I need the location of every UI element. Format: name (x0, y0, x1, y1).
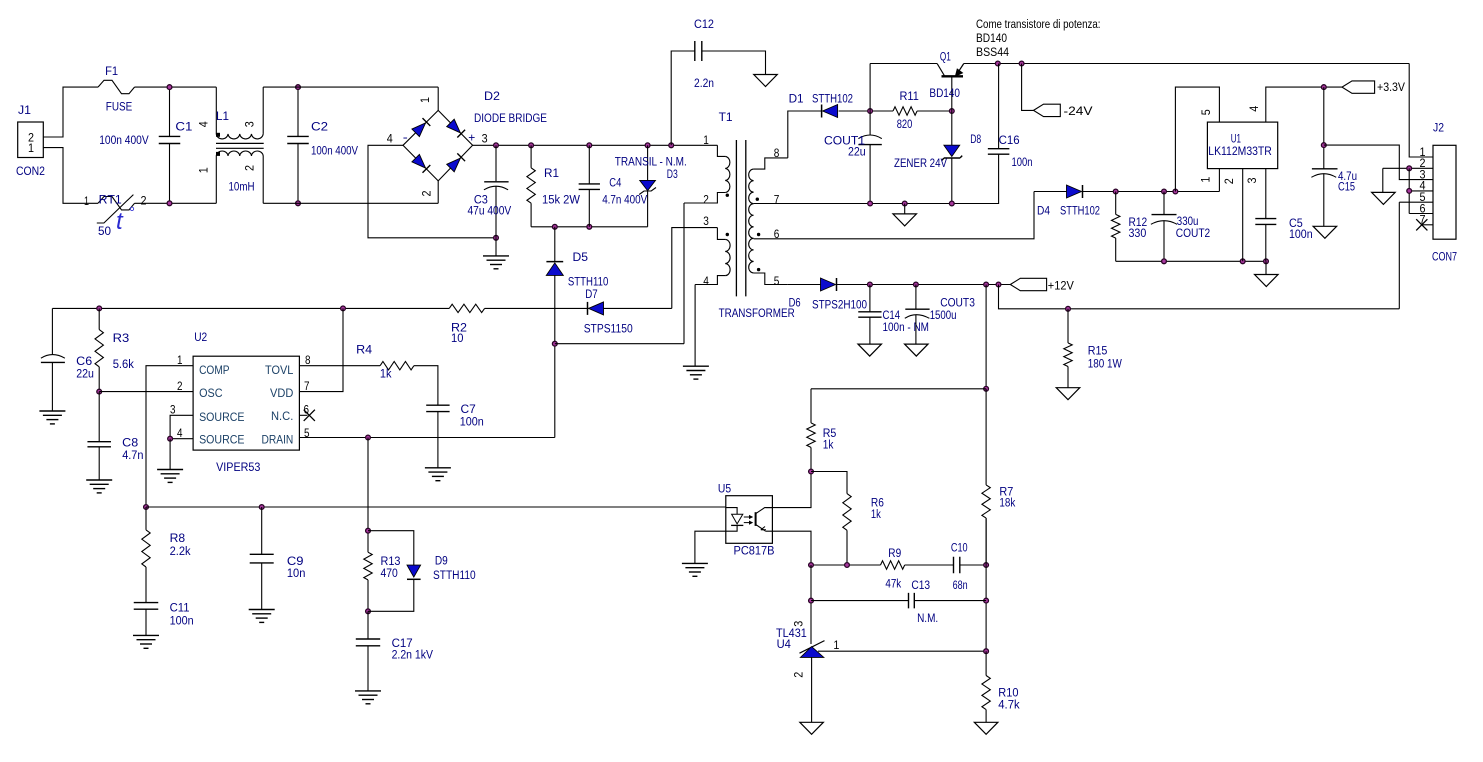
svg-text:PC817B: PC817B (734, 544, 775, 558)
svg-text:VIPER53: VIPER53 (216, 460, 260, 474)
svg-text:470: 470 (381, 566, 398, 580)
svg-text:R4: R4 (356, 343, 372, 357)
svg-text:3: 3 (242, 121, 256, 127)
svg-text:C15: C15 (1338, 179, 1355, 193)
svg-text:D5: D5 (573, 250, 589, 264)
svg-text:VDD: VDD (270, 386, 293, 400)
svg-text:3: 3 (482, 132, 488, 146)
svg-text:100n - NM: 100n - NM (883, 320, 929, 334)
svg-text:7: 7 (304, 379, 310, 393)
svg-text:F1: F1 (105, 64, 118, 78)
svg-text:R9: R9 (888, 546, 901, 560)
svg-text:°: ° (129, 204, 135, 221)
svg-text:2: 2 (792, 672, 806, 678)
svg-text:10mH: 10mH (229, 179, 255, 193)
svg-text:22u: 22u (848, 144, 866, 158)
svg-text:COUT2: COUT2 (1176, 226, 1211, 240)
svg-text:TRANSFORMER: TRANSFORMER (719, 306, 795, 320)
svg-text:68n: 68n (953, 578, 968, 592)
svg-text:C2: C2 (311, 120, 328, 134)
svg-text:FUSE: FUSE (106, 100, 133, 114)
svg-text:1: 1 (418, 97, 432, 103)
svg-text:BD140: BD140 (976, 31, 1007, 45)
svg-text:C13: C13 (911, 578, 930, 592)
svg-text:2.2n: 2.2n (694, 76, 714, 90)
svg-text:5.6k: 5.6k (113, 357, 135, 371)
svg-text:1: 1 (833, 638, 839, 652)
svg-text:STTH102: STTH102 (1060, 204, 1100, 218)
svg-text:5: 5 (774, 274, 780, 288)
svg-text:+3.3V: +3.3V (1377, 80, 1406, 94)
svg-text:100n 400V: 100n 400V (99, 133, 149, 147)
svg-text:22u: 22u (76, 366, 94, 380)
svg-text:D6: D6 (789, 296, 801, 310)
svg-text:SOURCE: SOURCE (199, 410, 244, 424)
svg-text:2.2n 1kV: 2.2n 1kV (392, 647, 434, 661)
svg-text:D1: D1 (789, 91, 804, 105)
svg-text:BSS44: BSS44 (976, 45, 1009, 59)
svg-text:1: 1 (1198, 176, 1212, 182)
svg-text:BD140: BD140 (929, 86, 960, 100)
svg-text:1k: 1k (380, 366, 392, 380)
svg-text:STTH110: STTH110 (433, 568, 476, 582)
svg-text:2: 2 (703, 193, 709, 207)
svg-text:47k: 47k (885, 576, 902, 590)
svg-text:2: 2 (141, 194, 147, 208)
svg-text:J2: J2 (1433, 120, 1444, 134)
svg-text:50: 50 (98, 224, 111, 238)
svg-text:CON7: CON7 (1432, 249, 1457, 263)
svg-text:820: 820 (897, 117, 913, 131)
svg-text:2.2k: 2.2k (170, 544, 192, 558)
svg-text:Come transistore di potenza:: Come transistore di potenza: (976, 17, 1101, 31)
svg-text:100n: 100n (1012, 155, 1033, 169)
svg-text:DRAIN: DRAIN (262, 433, 294, 447)
svg-text:2: 2 (419, 190, 433, 196)
svg-text:U5: U5 (718, 481, 731, 495)
svg-text:C11: C11 (170, 600, 190, 614)
svg-text:L1: L1 (216, 109, 229, 123)
svg-text:D2: D2 (484, 89, 500, 103)
svg-text:4: 4 (703, 274, 709, 288)
svg-text:8: 8 (774, 146, 780, 160)
svg-text:R1: R1 (544, 166, 559, 180)
svg-text:18k: 18k (999, 496, 1016, 510)
svg-text:330: 330 (1129, 226, 1147, 240)
svg-text:T1: T1 (719, 110, 733, 124)
svg-text:D3: D3 (667, 167, 678, 181)
svg-text:C4: C4 (609, 176, 621, 190)
svg-text:STTH102: STTH102 (812, 91, 853, 105)
svg-text:SOURCE: SOURCE (199, 433, 244, 447)
svg-text:R11: R11 (900, 89, 919, 103)
svg-text:D4: D4 (1037, 204, 1050, 218)
svg-text:8: 8 (305, 353, 311, 367)
svg-text:U2: U2 (194, 330, 207, 344)
svg-text:3: 3 (170, 403, 176, 417)
svg-text:RT1: RT1 (99, 193, 122, 207)
svg-text:2: 2 (242, 165, 256, 171)
svg-text:+: + (468, 131, 475, 145)
svg-text:1k: 1k (823, 437, 834, 451)
svg-text:DIODE BRIDGE: DIODE BRIDGE (474, 111, 547, 125)
svg-text:7: 7 (1420, 213, 1426, 227)
svg-text:100n: 100n (170, 613, 194, 627)
svg-text:D9: D9 (435, 553, 448, 567)
svg-text:4: 4 (196, 121, 210, 127)
svg-text:J1: J1 (18, 103, 31, 117)
svg-text:N.C.: N.C. (271, 409, 293, 423)
svg-text:1: 1 (84, 194, 89, 208)
svg-text:C1: C1 (175, 120, 192, 134)
svg-text:ZENER 24V: ZENER 24V (894, 156, 948, 170)
svg-text:TOVL: TOVL (265, 363, 293, 377)
svg-text:C12: C12 (694, 17, 714, 31)
svg-text:D8: D8 (970, 132, 981, 146)
svg-text:3: 3 (703, 214, 709, 228)
svg-text:2: 2 (177, 379, 183, 393)
svg-text:R3: R3 (113, 331, 130, 345)
svg-text:3: 3 (792, 621, 806, 627)
svg-text:COMP: COMP (199, 363, 230, 377)
svg-text:5: 5 (1199, 109, 1213, 115)
svg-text:Q1: Q1 (940, 49, 951, 63)
svg-text:STPS1150: STPS1150 (584, 321, 633, 335)
svg-text:180 1W: 180 1W (1088, 357, 1122, 371)
svg-text:10: 10 (451, 331, 464, 345)
svg-text:100n: 100n (460, 414, 484, 428)
svg-text:4: 4 (387, 131, 393, 145)
svg-text:STPS2H100: STPS2H100 (812, 298, 867, 312)
svg-text:-24V: -24V (1064, 104, 1094, 118)
svg-text:C16: C16 (999, 133, 1020, 147)
svg-text:4: 4 (177, 426, 183, 440)
svg-text:100n: 100n (1289, 227, 1313, 241)
svg-text:7: 7 (774, 193, 780, 207)
svg-text:4.7k: 4.7k (998, 698, 1020, 712)
svg-text:R8: R8 (170, 531, 186, 545)
svg-text:R15: R15 (1088, 344, 1108, 358)
svg-text:N.M.: N.M. (917, 611, 938, 625)
svg-text:1: 1 (28, 141, 34, 155)
svg-text:-: - (403, 130, 408, 144)
svg-text:4.7n 400V: 4.7n 400V (602, 192, 648, 206)
svg-text:C10: C10 (951, 540, 968, 554)
svg-text:D7: D7 (585, 287, 598, 301)
svg-text:1k: 1k (871, 507, 882, 521)
svg-text:U1: U1 (1231, 131, 1241, 145)
svg-text:U4: U4 (777, 637, 791, 651)
svg-text:1: 1 (196, 167, 210, 173)
svg-text:OSC: OSC (199, 386, 222, 400)
svg-text:15k 2W: 15k 2W (542, 192, 580, 206)
svg-text:LK112M33TR: LK112M33TR (1208, 144, 1272, 158)
svg-text:1: 1 (177, 353, 183, 367)
svg-text:4: 4 (1247, 106, 1261, 112)
svg-text:STTH110: STTH110 (568, 274, 609, 288)
svg-text:100n 400V: 100n 400V (311, 144, 359, 158)
svg-text:CON2: CON2 (16, 164, 45, 178)
svg-text:4.7n: 4.7n (122, 448, 143, 462)
svg-text:10n: 10n (287, 566, 306, 580)
svg-text:47u 400V: 47u 400V (468, 203, 512, 217)
svg-text:1: 1 (703, 133, 709, 147)
svg-text:1500u: 1500u (930, 308, 957, 322)
svg-text:+12V: +12V (1048, 279, 1075, 293)
svg-text:3: 3 (1245, 177, 1259, 183)
svg-text:2: 2 (1222, 178, 1236, 184)
